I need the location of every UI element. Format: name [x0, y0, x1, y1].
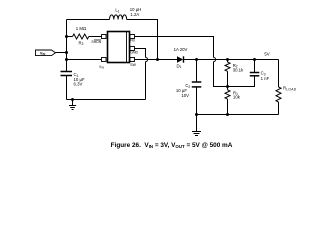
svg-text:SW: SW — [130, 63, 136, 67]
value C3 1nF — [261, 71, 270, 82]
wire SW pin to node — [135, 59, 158, 61]
pin VIN box — [102, 58, 107, 62]
svg-text:1A 20V: 1A 20V — [174, 47, 188, 52]
svg-text:VIN: VIN — [40, 50, 45, 56]
value R1 10k — [233, 90, 241, 99]
svg-text:10V: 10V — [181, 93, 189, 98]
pin SHDN box — [102, 35, 107, 39]
value C1 10uF 6.3V — [74, 72, 85, 87]
svg-text:D1: D1 — [177, 63, 182, 69]
node junction ground tap — [71, 98, 74, 101]
wire GND pin down to left rail with hop — [135, 49, 148, 100]
svg-text:Figure 26. VIN = 3V, VOUT = 5: Figure 26. VIN = 3V, VOUT = 5V @ 500 mA — [111, 142, 233, 149]
wire VIN tag to node — [56, 52, 67, 54]
inductor L1 — [110, 15, 127, 20]
wire left ground rail — [67, 99, 146, 101]
svg-text:VIN: VIN — [99, 65, 104, 70]
pin SHDN label — [91, 40, 101, 44]
node junction R1 bottom — [226, 113, 229, 116]
value 10uH 1.2A — [130, 7, 142, 17]
ground left — [69, 100, 76, 110]
wire main left vertical from top rail to C1 — [66, 20, 68, 72]
svg-text:5V: 5V — [264, 51, 269, 56]
ground middle — [192, 115, 201, 136]
svg-text:FB: FB — [130, 39, 135, 43]
resistor R2 — [225, 60, 230, 87]
capacitor C1 — [61, 72, 73, 100]
wire right ground rail — [197, 114, 279, 116]
svg-text:6.3V: 6.3V — [74, 82, 83, 87]
node junction C3 top — [253, 58, 256, 61]
svg-text:L1: L1 — [115, 8, 119, 14]
node junction R2 top — [226, 58, 229, 61]
pin SW box — [130, 58, 135, 62]
node junction VIN tag tap — [65, 51, 68, 54]
capacitor C3 — [228, 60, 260, 87]
pin GND box — [130, 47, 135, 51]
node junction VIN pin tap — [65, 58, 68, 61]
wire VIN node to VIN pin — [67, 59, 102, 61]
wire top rail left — [67, 19, 110, 21]
svg-text:GND: GND — [130, 51, 138, 55]
capacitor C2 — [192, 60, 202, 115]
wire top rail right and drop to SW node — [127, 20, 158, 60]
resistor R3 — [67, 34, 102, 39]
svg-text:1 nF: 1 nF — [261, 76, 270, 81]
wire VOUT row diode to load corner — [184, 59, 279, 61]
node junction C2 top — [195, 58, 198, 61]
node junction R3 tap — [65, 35, 68, 38]
value C2 10uF 10V — [176, 83, 191, 98]
node junction SW — [156, 58, 159, 61]
wire FB pin to divider with hop — [135, 37, 228, 87]
svg-text:R3: R3 — [79, 40, 84, 46]
svg-text:10k: 10k — [233, 95, 241, 100]
value R2 30.1k — [233, 63, 244, 73]
node junction FB divider — [226, 85, 229, 88]
wire SW node to diode anode — [158, 59, 178, 61]
svg-text:1.2A: 1.2A — [130, 12, 139, 17]
diode D1 — [177, 56, 184, 62]
svg-text:1 MΩ: 1 MΩ — [76, 26, 87, 31]
svg-text:RLOAD: RLOAD — [283, 86, 297, 92]
node junction C2 bottom — [195, 113, 198, 116]
svg-text:SHDN: SHDN — [91, 40, 101, 44]
node VIN input tag — [36, 50, 56, 56]
svg-text:30.1k: 30.1k — [233, 68, 244, 73]
resistor RLOAD — [276, 60, 281, 115]
op-amp U1 boost converter IC body — [108, 32, 130, 63]
pin FB box — [130, 35, 135, 39]
resistor R1 — [225, 87, 230, 115]
